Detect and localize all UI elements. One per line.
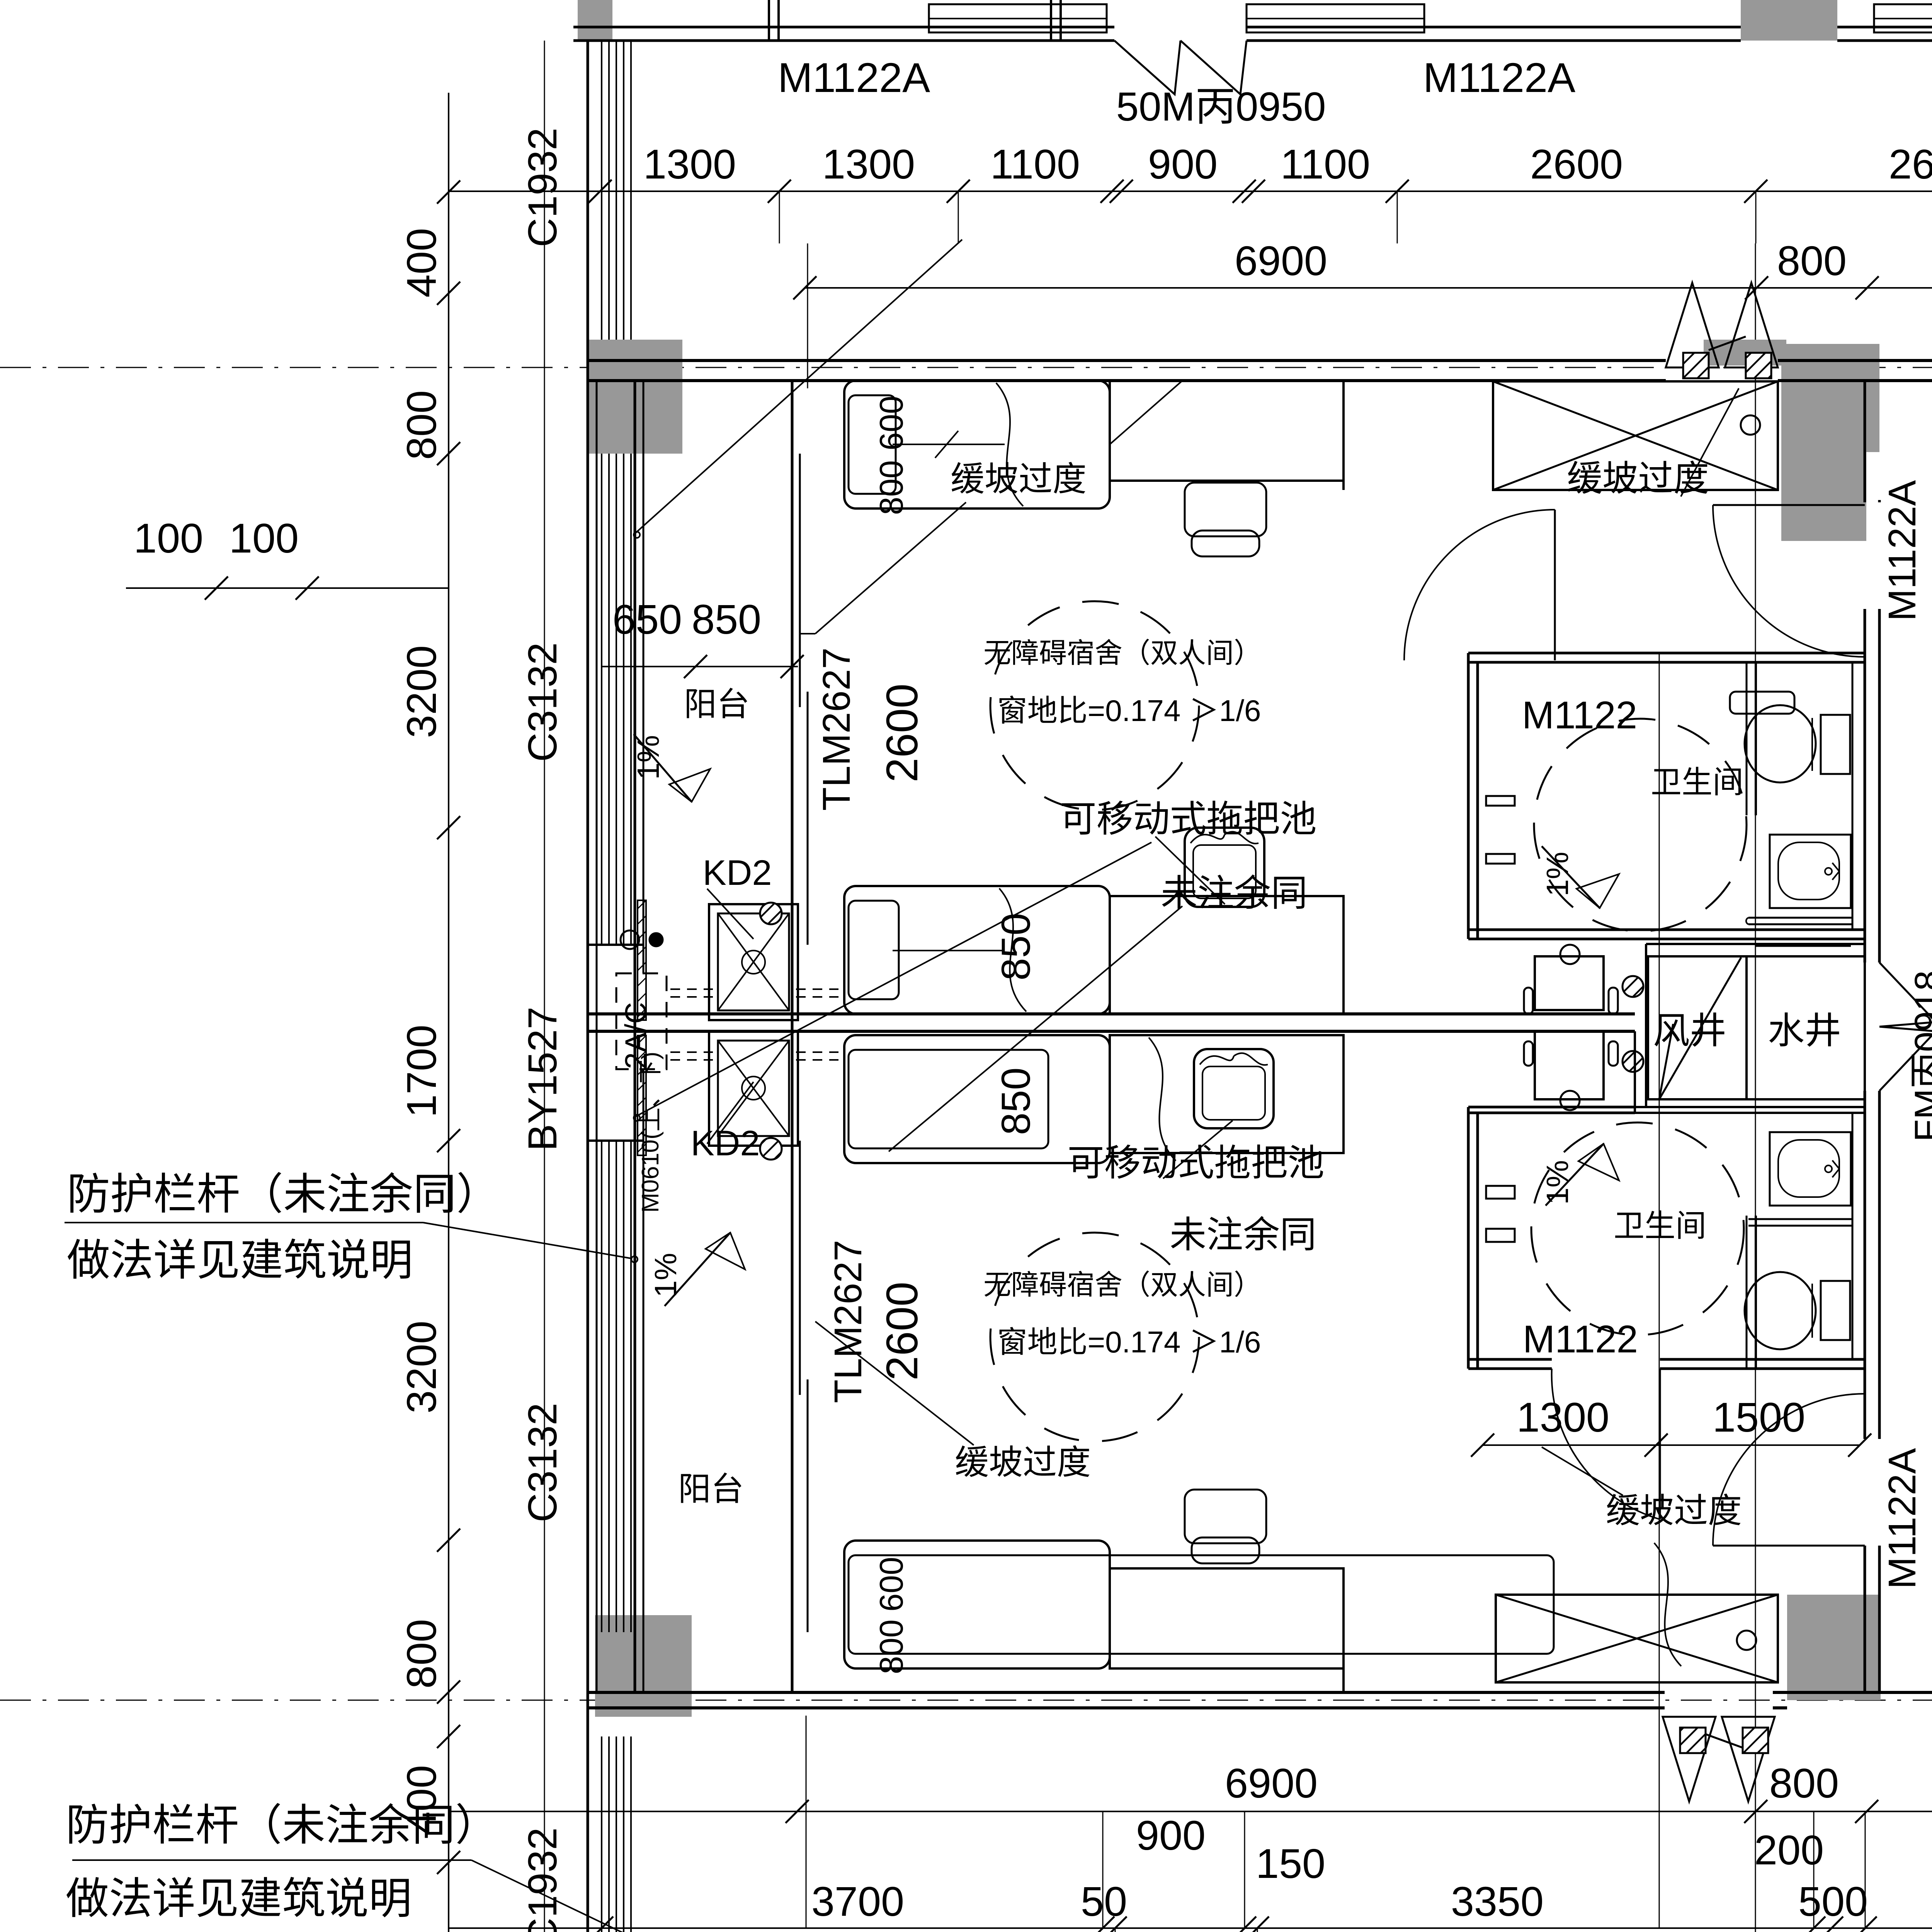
wall bath1 top (1468, 652, 1865, 655)
door M1122 bath2 (1659, 1369, 1661, 1519)
door room1 entry (1713, 504, 1865, 506)
wall bath2 west (1467, 1107, 1470, 1369)
stool hatched 1 (1622, 976, 1643, 997)
axis horizontal A (0, 367, 1932, 368)
svg-text:缓坡过度: 缓坡过度 (955, 1443, 1091, 1481)
dimension line row2 top (805, 287, 1932, 289)
svg-text:做法详见建筑说明: 做法详见建筑说明 (67, 1236, 413, 1284)
svg-text:1%: 1% (1540, 1160, 1575, 1205)
bench capsule 4 (1609, 1041, 1618, 1066)
door corridor shaft V (1879, 963, 1932, 1027)
svg-text:C3132: C3132 (520, 642, 565, 762)
leader huanpo room2 (815, 1321, 974, 1445)
svg-text:600: 600 (873, 396, 910, 451)
column E corridor (1781, 344, 1879, 452)
svg-text:水井: 水井 (1768, 1010, 1841, 1051)
column F bottom corridor (1787, 1595, 1881, 1700)
hatch strip balcony lower (638, 1036, 646, 1155)
bench capsule 1 (1524, 988, 1533, 1014)
leader guardrail bottom (72, 1859, 471, 1861)
wall balcony west outer (587, 41, 589, 1932)
door FM0918 corridor bottom (1663, 1717, 1716, 1801)
partition bath2 (1755, 1216, 1757, 1369)
closet circle top (1741, 415, 1760, 435)
shaft fengjing box (1648, 956, 1747, 1099)
door room2 entry (1713, 1545, 1865, 1547)
connector dashes upper (670, 988, 713, 990)
towel bar bath1 a (1486, 796, 1515, 806)
leader huanpo room1 (815, 502, 966, 634)
svg-text:M1122: M1122 (1522, 694, 1637, 737)
window box top 1 (929, 4, 1107, 32)
leader mop2 (1163, 1121, 1233, 1179)
window C3132 band upper (601, 454, 602, 945)
svg-text:6900: 6900 (1235, 237, 1327, 284)
svg-text:无障碍宿舍（双人间）: 无障碍宿舍（双人间） (983, 1270, 1262, 1301)
svg-text:窗地比=0.174 ＞1/6: 窗地比=0.174 ＞1/6 (997, 1325, 1261, 1359)
svg-text:缓坡过度: 缓坡过度 (1567, 459, 1709, 498)
svg-text:800: 800 (1777, 237, 1847, 284)
wall corridor west line1 (1864, 381, 1866, 502)
svg-text:M0610(上、下): M0610(上、下) (637, 1052, 664, 1213)
svg-text:M1122A: M1122A (1423, 54, 1575, 101)
column top-left (578, 0, 612, 41)
towel bar bath2 a (1486, 1186, 1515, 1199)
wall dorm bottom line2 (588, 1706, 1665, 1709)
misc leader mid (635, 842, 1151, 1117)
svg-text:阳台: 阳台 (684, 686, 750, 723)
closet circle bottom (1737, 1631, 1756, 1650)
bench capsule 3 (1609, 988, 1618, 1014)
wall sink niche bath1 (1756, 945, 1851, 947)
svg-text:1100: 1100 (1281, 141, 1370, 187)
chair 2 room2 (1185, 1490, 1266, 1543)
wall balcony inner (634, 381, 636, 1692)
vestibule wall top (1342, 381, 1345, 490)
AC dashed box (616, 973, 667, 1069)
svg-text:风井: 风井 (1653, 1010, 1726, 1051)
svg-text:1300: 1300 (1517, 1394, 1609, 1440)
shaft fengjing slant (1659, 957, 1741, 1099)
closet X-box bottom (1496, 1595, 1778, 1682)
svg-text:800: 800 (873, 460, 910, 515)
desk 2 room1 (1110, 896, 1344, 1014)
shaft bottom wall (1635, 1106, 1865, 1108)
svg-text:防护栏杆（未注余同）: 防护栏杆（未注余同） (67, 1170, 500, 1218)
window box top 2 (1247, 4, 1424, 32)
wall bath2 top (1468, 1106, 1635, 1109)
svg-text:150: 150 (1256, 1840, 1325, 1887)
svg-text:卫生间: 卫生间 (1651, 765, 1743, 799)
svg-text:850: 850 (993, 1067, 1039, 1135)
dimension line row1 bottom (449, 1811, 1932, 1812)
vestibule wall bottom (1342, 1595, 1345, 1692)
svg-text:1300: 1300 (822, 141, 915, 187)
svg-text:可移动式拖把池: 可移动式拖把池 (1067, 1143, 1324, 1184)
turning circle room1 (990, 601, 1199, 810)
dim line bath2 (1483, 1444, 1860, 1446)
svg-text:M1122A: M1122A (778, 54, 930, 101)
column D left wall (587, 340, 682, 454)
sliding door TLM2627 lower (799, 1141, 801, 1395)
leader guardrail mid (65, 1222, 423, 1223)
svg-text:未注余同: 未注余同 (1170, 1214, 1316, 1255)
slope arrow bath2 (1546, 1144, 1604, 1206)
kd2 wall stubs (643, 1013, 709, 1015)
axis horizontal B (0, 1700, 1932, 1701)
wall stub top 1 (768, 0, 770, 41)
shelf bath1 (1730, 692, 1794, 714)
svg-text:1100: 1100 (990, 141, 1080, 187)
slope arrow balcony upper (634, 734, 692, 802)
slope arrow bath1 (1542, 846, 1600, 908)
svg-text:800: 800 (398, 1619, 445, 1689)
svg-text:50: 50 (1081, 1878, 1127, 1925)
misc leader top (635, 240, 962, 533)
mop pool upper (709, 904, 798, 1020)
svg-text:900: 900 (1136, 1812, 1206, 1859)
svg-text:1%: 1% (631, 735, 665, 780)
slope arrow balcony lower (665, 1233, 730, 1306)
svg-text:50M丙0950: 50M丙0950 (1116, 84, 1326, 129)
bench capsule 2 (1524, 1041, 1533, 1066)
toilet bath2 (1745, 1272, 1816, 1349)
sink bath1 (1770, 835, 1851, 908)
grid vertical x2090 (807, 243, 808, 388)
table circle top (1560, 945, 1580, 964)
connector dashes lower (670, 1051, 713, 1053)
svg-text:3200: 3200 (398, 645, 445, 738)
svg-text:TLM2627: TLM2627 (827, 1240, 870, 1403)
wall top strip line1 (573, 26, 1114, 29)
dimension line row2 bottom (449, 1927, 1932, 1929)
sliding door TLM2627 upper (799, 454, 801, 707)
dimension line row1 top (449, 190, 1932, 192)
wall stub top 2 (1050, 0, 1052, 41)
bed2 tick (893, 950, 1005, 951)
misc leader bed2 (889, 906, 1182, 1151)
wall dorm bottom line1 (588, 1691, 1665, 1694)
svg-text:3700: 3700 (811, 1878, 904, 1925)
wall bath1 east (1852, 662, 1854, 930)
wall dorm top line1 (588, 359, 1666, 362)
shaft shuijing box (1747, 956, 1865, 1099)
svg-text:无障碍宿舍（双人间）: 无障碍宿舍（双人间） (983, 638, 1262, 669)
svg-text:800: 800 (873, 1619, 910, 1674)
svg-text:卫生间: 卫生间 (1614, 1209, 1706, 1243)
mop sink room1 (1185, 828, 1264, 907)
witness line x4294 (1659, 653, 1660, 1928)
leader KD2 upper (707, 889, 753, 939)
svg-text:1%: 1% (1540, 852, 1575, 896)
grid vertical x4543 (1755, 243, 1756, 1932)
svg-text:2600: 2600 (878, 684, 927, 782)
door M0950 top-left V (1114, 41, 1180, 94)
svg-text:KD2: KD2 (703, 853, 772, 893)
svg-text:阳台: 阳台 (678, 1471, 744, 1508)
hatch strip balcony upper (638, 900, 646, 1020)
column left wall lower (595, 1615, 692, 1717)
svg-text:800: 800 (398, 390, 445, 460)
svg-text:2600: 2600 (1889, 141, 1932, 187)
svg-text:C1932: C1932 (520, 128, 565, 247)
chair 1 room1 (1185, 483, 1266, 536)
svg-text:C1932: C1932 (520, 1827, 565, 1932)
closet X-box top (1493, 381, 1778, 490)
turning circle room2 (990, 1233, 1199, 1441)
svg-text:1700: 1700 (398, 1025, 445, 1117)
svg-text:900: 900 (1148, 141, 1218, 187)
table unit half1 (1535, 956, 1604, 1010)
svg-text:2600: 2600 (878, 1282, 927, 1381)
svg-text:3350: 3350 (1451, 1878, 1544, 1925)
svg-text:1%: 1% (648, 1253, 683, 1298)
grab rail bath2 (1748, 1218, 1852, 1220)
door M1122 bath1 (1554, 510, 1556, 660)
bed1 tick (893, 444, 1005, 445)
svg-text:做法详见建筑说明: 做法详见建筑说明 (66, 1874, 412, 1923)
desk 1 room1 (1110, 381, 1344, 481)
window band mid BY1527 (601, 1141, 602, 1198)
column top-mid (1741, 0, 1837, 41)
wall dorm top line2 (588, 379, 1666, 382)
svg-text:2600: 2600 (1530, 141, 1623, 187)
door FM0918 corridor top (1666, 283, 1719, 367)
circle symbol a (621, 930, 639, 949)
wall balcony west inner (596, 381, 598, 1692)
svg-text:650: 650 (612, 596, 682, 643)
svg-text:400: 400 (398, 228, 445, 298)
svg-text:M1122A: M1122A (1881, 1448, 1924, 1589)
svg-text:KD2: KD2 (691, 1124, 760, 1163)
svg-text:FM丙0918: FM丙0918 (1075, 1928, 1255, 1932)
leader mop1 (1155, 837, 1225, 904)
dimension line left x1161 (448, 93, 449, 1932)
toilet bath1 (1745, 705, 1816, 782)
stool hatched 2 (1622, 1051, 1643, 1072)
leader huanpo corridor (1681, 388, 1739, 497)
svg-text:3200: 3200 (398, 1321, 445, 1413)
svg-text:100: 100 (134, 515, 203, 561)
svg-text:窗地比=0.174 ＞1/6: 窗地比=0.174 ＞1/6 (997, 694, 1261, 728)
partition bath1 (1755, 662, 1757, 815)
wall bath1 bottom (1468, 929, 1865, 931)
svg-text:100: 100 (229, 515, 299, 561)
door leaf gray corridor top (1704, 340, 1786, 366)
svg-text:C3132: C3132 (520, 1403, 565, 1522)
table circle bottom (1560, 1091, 1580, 1110)
circle symbol b (650, 933, 663, 946)
svg-text:800: 800 (1769, 1760, 1839, 1806)
wall corridor west line2 (1878, 500, 1881, 502)
svg-text:850: 850 (692, 596, 761, 643)
svg-text:缓坡过度: 缓坡过度 (951, 460, 1087, 498)
svg-text:防护栏杆（未注余同）: 防护栏杆（未注余同） (66, 1801, 498, 1849)
svg-text:500: 500 (1798, 1878, 1868, 1925)
desk 3 room2 (1110, 1035, 1344, 1153)
svg-text:FM丙0918: FM丙0918 (1907, 970, 1932, 1142)
svg-text:M1122: M1122 (1523, 1318, 1638, 1361)
mop pool lower (709, 1032, 798, 1146)
leader bed1 (1110, 381, 1182, 444)
window C1932 band top (601, 41, 602, 340)
wall divider rooms (588, 1012, 1635, 1015)
bed 4 room2 (844, 1541, 1110, 1668)
towel bar bath1 b (1486, 854, 1515, 864)
drain circle lower (760, 1138, 782, 1160)
bed 2 room1 (844, 886, 1110, 1014)
svg-text:M1122A: M1122A (1881, 480, 1924, 621)
bed 3 room2 (844, 1035, 1110, 1163)
window C1932 band bottom (601, 1736, 602, 1932)
svg-text:6900: 6900 (1225, 1760, 1318, 1806)
svg-text:BY1527: BY1527 (520, 1007, 565, 1151)
grab rail bath1 (1748, 917, 1852, 919)
wall bath2 east (1852, 1113, 1854, 1359)
drain circle upper (760, 903, 782, 924)
desk 4 room2 (1110, 1568, 1344, 1668)
turning circle bath1 (1534, 719, 1747, 931)
wall bath2 bottom (1468, 1358, 1552, 1361)
window label line x1409 (544, 41, 545, 1932)
window box top 3 (1874, 4, 1932, 32)
wall room west (791, 381, 794, 1692)
bed 1 room1 (844, 381, 1110, 509)
sink bath2 (1770, 1132, 1851, 1206)
wall bath1 west (1467, 653, 1470, 939)
balcony mid walls (588, 944, 643, 946)
svg-text:600: 600 (873, 1557, 910, 1612)
leader KD2 lower (707, 1082, 753, 1144)
turning circle bath2 (1531, 1122, 1744, 1335)
leader huanpo bath2 (1542, 1447, 1623, 1495)
wall top strip line2 (573, 39, 1114, 42)
svg-text:1500: 1500 (1713, 1394, 1805, 1440)
shaft left wall (1645, 944, 1647, 1107)
svg-text:TLM2627: TLM2627 (815, 648, 858, 811)
towel bar bath2 b (1486, 1229, 1515, 1242)
shaft top wall (1646, 943, 1865, 945)
mop sink room2 (1194, 1049, 1274, 1128)
svg-text:1300: 1300 (643, 141, 736, 187)
table unit half2 (1535, 1031, 1604, 1099)
wall balcony inner2 (643, 381, 645, 973)
